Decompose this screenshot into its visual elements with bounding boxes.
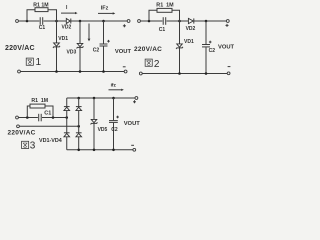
svg-text:VOUT: VOUT <box>115 49 132 55</box>
svg-text:C1: C1 <box>39 25 46 31</box>
svg-text:2: 2 <box>154 59 160 70</box>
svg-text:R1 1M: R1 1M <box>33 2 48 8</box>
svg-text:VD1-VD4: VD1-VD4 <box>39 138 62 144</box>
svg-text:220V/AC: 220V/AC <box>5 45 35 52</box>
svg-text:VD5: VD5 <box>98 127 108 133</box>
svg-text:1: 1 <box>36 57 42 68</box>
svg-text:VD1: VD1 <box>58 36 68 42</box>
svg-text:3: 3 <box>30 141 36 152</box>
svg-text:VOUT: VOUT <box>218 44 235 50</box>
svg-text:Ifz: Ifz <box>111 83 117 89</box>
svg-text:220V/AC: 220V/AC <box>134 46 162 53</box>
svg-text:VD2: VD2 <box>62 25 72 31</box>
svg-text:C1: C1 <box>44 111 51 117</box>
svg-text:C2: C2 <box>93 47 100 53</box>
svg-text:IFz: IFz <box>101 5 109 11</box>
svg-text:C1: C1 <box>159 27 166 33</box>
svg-text:VD1: VD1 <box>184 39 194 45</box>
svg-text:R1 1M: R1 1M <box>156 2 174 8</box>
svg-text:R1 1M: R1 1M <box>31 98 48 104</box>
svg-text:C2: C2 <box>209 48 216 54</box>
svg-text:220V/AC: 220V/AC <box>8 129 36 136</box>
svg-text:VOUT: VOUT <box>124 121 141 127</box>
svg-text:VD3: VD3 <box>67 50 77 56</box>
svg-text:VD2: VD2 <box>186 26 196 32</box>
svg-text:C2: C2 <box>111 127 118 133</box>
